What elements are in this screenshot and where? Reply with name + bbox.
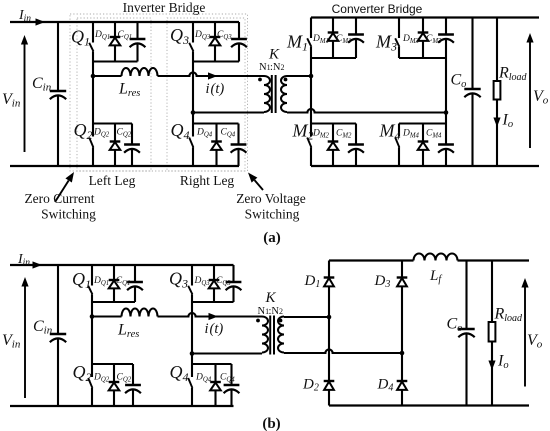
wire node to Lres (b) xyxy=(92,315,122,317)
dotted box Right Leg xyxy=(167,18,245,171)
diode DQ3b xyxy=(213,265,215,280)
inductor Lres (b) xyxy=(122,309,158,317)
capacitor CQ2b xyxy=(132,364,134,385)
switch Q2b xyxy=(91,364,93,377)
switch Q1b xyxy=(91,265,93,286)
inductor Lf (b) xyxy=(414,254,458,261)
polarity dot secondary (a) xyxy=(284,78,288,82)
arrowhead Iin on rail (a) xyxy=(36,18,46,25)
switch M3 xyxy=(398,18,400,39)
arrowhead i(t) (b) xyxy=(209,313,219,320)
capacitor CQ4b xyxy=(230,364,232,385)
wire top rail inverter (b) xyxy=(10,264,234,266)
wire top rail inverter (a) xyxy=(10,21,239,23)
diode DQ4 xyxy=(215,124,217,142)
switch Q3b xyxy=(191,265,193,286)
polarity dot secondary (b) xyxy=(279,319,283,323)
svg-text:Switching: Switching xyxy=(41,207,96,222)
diode D2 xyxy=(324,380,335,382)
wire top rail rectifier left segment (b) xyxy=(329,259,414,261)
svg-text:Zero Voltage: Zero Voltage xyxy=(236,191,306,206)
wire Lres to transformer primary with hop over right leg (b) xyxy=(158,313,263,317)
wire M1/M2 leg mid (a) xyxy=(310,58,312,124)
node right leg lower tap (b) xyxy=(190,351,195,356)
inductor Lres (a) xyxy=(122,68,158,76)
wire D3/D4 leg mid (b) xyxy=(401,353,403,381)
diode D1 xyxy=(328,261,330,278)
capacitor CQ3 xyxy=(238,22,240,39)
svg-text:N1: N1 xyxy=(259,62,271,73)
capacitor Cin (a) xyxy=(57,22,59,91)
wire left leg mid (b) xyxy=(91,302,93,364)
wire bottom rail inverter (b) xyxy=(10,405,234,407)
svg-text:Inverter Bridge: Inverter Bridge xyxy=(123,0,206,15)
svg-text:N1: N1 xyxy=(258,306,270,317)
diode DM3 xyxy=(422,18,424,33)
svg-text:(a): (a) xyxy=(263,230,281,246)
transformer core (b) xyxy=(269,316,271,355)
capacitor Cin (b) xyxy=(57,265,59,334)
wire right leg mid (b) xyxy=(191,302,193,364)
wire cell sub-rail of Q4 xyxy=(193,122,239,124)
node secondary bottom on right connector (a) xyxy=(444,110,449,115)
wire cell sub-rail of M3 xyxy=(399,57,446,59)
arrowhead Io (a) xyxy=(493,118,500,128)
arrowhead Iin on rail (b) xyxy=(33,261,43,268)
wire transformer secondary top to M leg (a) xyxy=(287,75,311,77)
transformer core (a) xyxy=(271,75,273,113)
diode DQ2 xyxy=(114,124,116,142)
arrow Vo (b) xyxy=(524,286,526,387)
wire cell sub-rail of Q3b xyxy=(192,301,234,303)
wire transformer primary bottom to right leg node (b) xyxy=(192,352,262,354)
wire bottom rail rectifier (b) xyxy=(329,404,529,406)
arrowhead i(t) (a) xyxy=(208,72,218,79)
switch Q4 xyxy=(192,124,194,137)
node left leg midpoint (b) xyxy=(90,314,95,319)
arrow Vin (a) xyxy=(24,43,26,152)
switch Q4b xyxy=(191,364,193,377)
wire cell sub-rail of Q2b xyxy=(92,363,133,365)
capacitor CM3 xyxy=(445,18,447,35)
diode DM1 xyxy=(332,18,334,33)
wire bottom rail inverter (a) xyxy=(10,165,239,167)
diode DQ3 xyxy=(214,22,216,37)
wire transformer secondary bottom with hop over D1/D2 leg (b) xyxy=(284,349,402,353)
wire cell sub-rail of Q4b xyxy=(192,363,232,365)
transformer K primary winding (b) xyxy=(262,317,268,353)
diode D4 xyxy=(397,380,408,382)
transformer K secondary winding (b) xyxy=(278,317,284,353)
svg-text:Right Leg: Right Leg xyxy=(180,173,235,188)
switch M4 xyxy=(398,124,400,137)
resistor Rload (a) xyxy=(496,18,498,82)
node left leg midpoint (a) xyxy=(91,74,96,79)
wire bottom rail converter (a) xyxy=(311,165,539,167)
wire cell sub-rail of M4 xyxy=(399,122,446,124)
switch Q3 xyxy=(192,22,194,43)
wire right connector M3-M4 (a) xyxy=(445,58,447,124)
diode DM2 xyxy=(332,124,334,142)
wire cell sub-rail of Q1 xyxy=(93,60,138,62)
capacitor Co (a) xyxy=(471,18,473,90)
switch M1 xyxy=(310,18,312,39)
svg-text:K: K xyxy=(268,47,280,63)
switch Q2 xyxy=(92,124,94,137)
diode DQ1b xyxy=(113,265,115,280)
wire cell sub-rail of M1 xyxy=(311,57,356,59)
wire D1/D2 leg mid (b) xyxy=(328,317,330,381)
node right leg lower tap (a) xyxy=(191,110,196,115)
node secondary top on M1/M2 leg (a) xyxy=(309,74,314,79)
diode DM4 xyxy=(422,124,424,142)
annotation arrow Zero Current Switching xyxy=(55,180,69,202)
capacitor CQ3b xyxy=(232,265,234,282)
svg-text:Left Leg: Left Leg xyxy=(89,173,136,188)
wire transformer secondary bottom with hop over M1/M2 leg (a) xyxy=(287,109,446,113)
wire left leg mid (a) xyxy=(92,62,94,124)
wire cell sub-rail of Q1b xyxy=(92,301,135,303)
wire transformer primary bottom to right leg node (a) xyxy=(193,111,264,113)
capacitor CQ1b xyxy=(134,265,136,282)
dotted box Inverter Bridge xyxy=(70,14,248,171)
svg-text:(b): (b) xyxy=(262,416,280,431)
capacitor CM1 xyxy=(355,18,357,35)
node secondary bottom on D3/D4 leg (b) xyxy=(400,351,405,356)
diode DQ2b xyxy=(113,364,115,382)
node secondary top on D1/D2 leg (b) xyxy=(327,315,332,320)
capacitor CM2 xyxy=(355,124,357,145)
svg-text:i: i xyxy=(205,321,209,337)
wire top rail converter (a) xyxy=(311,16,539,18)
svg-text:Zero Current: Zero Current xyxy=(24,191,94,206)
svg-text:(t): (t) xyxy=(211,81,225,97)
svg-text:K: K xyxy=(265,290,277,306)
wire transformer secondary top to D1/D2 leg (b) xyxy=(284,316,329,318)
capacitor CM4 xyxy=(445,124,447,145)
capacitor Co (b) xyxy=(465,261,467,330)
svg-text:(t): (t) xyxy=(210,321,224,337)
wire cell sub-rail of M2 xyxy=(311,122,356,124)
diode DQ4b xyxy=(214,364,216,382)
svg-text::N2: :N2 xyxy=(269,306,284,317)
diode D3 xyxy=(401,261,403,278)
arrowhead Io (b) xyxy=(488,361,495,371)
svg-text:i: i xyxy=(206,81,210,97)
wire right leg mid (a) xyxy=(192,62,194,124)
wire top rail rectifier right segment (b) xyxy=(458,259,530,261)
arrow Vin (b) xyxy=(24,285,26,398)
svg-text::N2: :N2 xyxy=(270,62,285,73)
switch M2 xyxy=(310,124,312,137)
arrow Vo (a) xyxy=(529,41,531,148)
wire Lres to transformer primary with hop over right leg (a) xyxy=(158,72,265,76)
diode DQ1 xyxy=(114,22,116,37)
capacitor CQ4 xyxy=(237,124,239,145)
capacitor CQ1 xyxy=(136,22,138,39)
annotation arrow Zero Voltage Switching xyxy=(255,180,263,190)
switch Q1 xyxy=(92,22,94,43)
resistor Rload (b) xyxy=(491,261,493,323)
capacitor CQ2 xyxy=(131,124,133,145)
transformer K secondary winding (a) xyxy=(281,76,287,112)
wire node to Lres (a) xyxy=(93,75,122,77)
wire cell sub-rail of Q3 xyxy=(193,60,239,62)
polarity dot primary (a) xyxy=(258,78,262,82)
polarity dot primary (b) xyxy=(256,319,260,323)
dotted box Left Leg xyxy=(77,18,151,171)
wire cell sub-rail of Q2 xyxy=(93,122,132,124)
svg-text:Converter Bridge: Converter Bridge xyxy=(332,2,423,16)
transformer K primary winding (a) xyxy=(264,76,270,112)
svg-text:Switching: Switching xyxy=(245,207,300,222)
